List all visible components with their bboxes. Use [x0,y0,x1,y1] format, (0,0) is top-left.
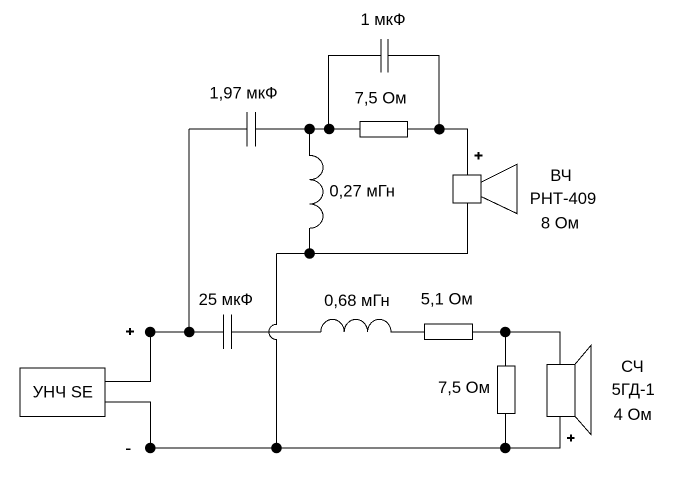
svg-text:8 Ом: 8 Ом [541,214,579,233]
svg-text:4 Ом: 4 Ом [614,405,652,424]
svg-text:25 мкФ: 25 мкФ [199,290,253,309]
svg-text:РНТ-409: РНТ-409 [530,189,596,208]
svg-text:УНЧ SE: УНЧ SE [33,383,93,402]
svg-text:1,97 мкФ: 1,97 мкФ [209,84,277,103]
svg-text:0,27 мГн: 0,27 мГн [329,181,395,200]
svg-text:ВЧ: ВЧ [550,166,571,185]
svg-text:5ГД-1: 5ГД-1 [612,380,655,399]
svg-text:7,5 Ом: 7,5 Ом [355,89,407,108]
svg-text:0,68 мГн: 0,68 мГн [324,291,390,310]
svg-text:7,5 Ом: 7,5 Ом [438,378,490,397]
svg-text:1 мкФ: 1 мкФ [360,10,405,29]
svg-text:СЧ: СЧ [621,357,644,376]
svg-text:5,1 Ом: 5,1 Ом [421,290,473,309]
